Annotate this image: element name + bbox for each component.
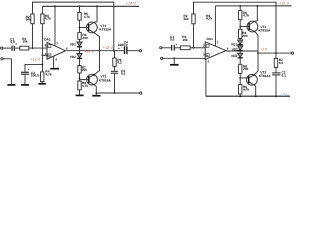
op-amp output wire <box>66 50 114 52</box>
node C2' rail <box>275 95 277 97</box>
wire R9 to C3 <box>114 66 116 70</box>
svg-text:4,7k: 4,7k <box>84 15 90 19</box>
resistor R4' 200 <box>239 29 242 38</box>
svg-text:+: + <box>48 54 50 58</box>
node R6' rail <box>239 95 241 97</box>
wire lower input to pin3 <box>163 57 205 59</box>
op-amp DA1 <box>47 42 66 59</box>
node pin7 on rail <box>54 5 56 7</box>
wire input to C1 <box>3 47 11 49</box>
svg-text:+: + <box>15 42 17 46</box>
resistor R7' 0.2 <box>274 58 277 67</box>
node feedback junction <box>113 50 115 52</box>
wire branch to C2 <box>25 64 42 71</box>
wire R8' to R6' <box>239 73 241 84</box>
wire R4' to VD1' <box>239 38 241 40</box>
capacitor C1 5.0 <box>11 46 14 51</box>
wire R8 to ground <box>79 90 81 95</box>
wire R2 bottom <box>32 24 34 48</box>
transistor VT1 KT815A <box>86 22 97 33</box>
lower input terminal <box>1 58 3 60</box>
wire C1' to R1' <box>175 47 180 49</box>
svg-text:VD2: VD2 <box>232 47 238 51</box>
svg-text:+12 V: +12 V <box>30 57 41 62</box>
ground input right <box>170 64 179 66</box>
svg-text:4,7k: 4,7k <box>243 14 249 18</box>
node VT1' base <box>239 26 241 28</box>
capacitor C3 0.1 <box>111 71 118 74</box>
resistor R8' 200 <box>239 64 242 73</box>
ground C2 <box>21 84 29 86</box>
resistor R5' 4.7k <box>239 11 242 20</box>
node VT2' collector rail <box>255 95 257 97</box>
wire R7' zobel <box>275 53 277 58</box>
svg-text:KT815A: KT815A <box>258 28 271 32</box>
svg-text:0,2: 0,2 <box>279 61 284 65</box>
svg-text:KT814A: KT814A <box>99 78 112 82</box>
node inverting input right <box>193 47 195 49</box>
svg-text:100,0: 100,0 <box>31 74 39 78</box>
svg-text:4,7k: 4,7k <box>45 72 51 76</box>
wire pin3 stub <box>42 54 47 56</box>
diode VD2' <box>238 46 243 50</box>
node VT1' collector rail <box>256 5 258 7</box>
svg-text:10k: 10k <box>22 40 28 44</box>
wire R2 top feedback to rail <box>33 2 114 51</box>
svg-text:KT814A: KT814A <box>259 74 272 78</box>
node ground tap <box>173 57 175 59</box>
svg-text:200: 200 <box>243 67 249 71</box>
node chain output junction <box>79 50 81 52</box>
transistor VT1' KT815A <box>247 21 258 32</box>
svg-text:+12 V: +12 V <box>103 45 114 50</box>
+12V rail right <box>215 5 291 7</box>
resistor R9 0.2 <box>113 58 116 66</box>
node R5 on rail <box>79 5 81 7</box>
node VT2' base <box>239 77 241 79</box>
svg-text:0,2: 0,2 <box>117 61 122 65</box>
svg-text:DA1: DA1 <box>207 37 214 41</box>
svg-text:+12 V: +12 V <box>279 1 290 6</box>
svg-text:VD1: VD1 <box>70 42 76 46</box>
node inverting input <box>32 47 34 49</box>
svg-text:+: + <box>118 46 120 50</box>
svg-text:4,7k: 4,7k <box>206 17 212 21</box>
node R5' on rail <box>239 5 241 7</box>
svg-text:+12 V: +12 V <box>84 49 95 54</box>
pin4 wire <box>53 56 55 68</box>
resistor R1 10k <box>20 46 29 50</box>
node bottom wire collector <box>95 92 97 94</box>
wire C3 to bottom <box>114 74 116 93</box>
svg-text:200: 200 <box>82 68 88 72</box>
wire R5 to R6 through VT1 base node <box>79 20 81 32</box>
node bias branch <box>42 64 44 66</box>
resistor R1' 10k <box>180 46 190 50</box>
wire R4 to ground <box>41 82 43 84</box>
resistor R6' 4.7k <box>239 84 242 94</box>
svg-text:VD3: VD3 <box>231 54 237 58</box>
transistor VT2' KT814A <box>247 74 258 85</box>
resistor R8 4.7k <box>78 81 81 90</box>
svg-text:VD2: VD2 <box>70 55 76 59</box>
node VT1 base <box>79 27 81 29</box>
input terminal right <box>160 47 162 49</box>
wire R2' bottom <box>193 24 195 48</box>
resistor R5 4.7k <box>78 12 81 20</box>
svg-text:200: 200 <box>82 36 88 40</box>
wire R7' to C2' <box>275 67 277 72</box>
resistor R7 200 <box>78 66 81 73</box>
svg-text:5,0: 5,0 <box>170 38 175 42</box>
ground R4 <box>38 83 46 85</box>
resistor R3 4.7k <box>41 14 44 24</box>
svg-text:VD1: VD1 <box>231 43 237 47</box>
resistor R2' 56k <box>192 14 195 24</box>
node zobel junction right <box>275 52 277 54</box>
wire R1' to pin2 <box>190 47 205 49</box>
node VT2 base <box>79 77 81 79</box>
wire C2 to ground <box>24 75 26 85</box>
svg-text:0,1: 0,1 <box>282 73 287 77</box>
svg-text:+24 V: +24 V <box>126 0 137 5</box>
inverting input box <box>48 45 51 48</box>
op-amp DA1' <box>205 42 226 60</box>
input terminal XS1 <box>1 47 3 49</box>
wire R6' to rail <box>239 94 241 96</box>
svg-text:56k: 56k <box>184 17 190 21</box>
capacitor C4 2200.0 plus wire <box>114 50 124 52</box>
ground input <box>7 84 15 86</box>
op-amp output wire right <box>226 50 258 52</box>
+24V rail <box>42 5 139 7</box>
wire R6 to VD1 <box>79 39 81 42</box>
wire C4 to output terminal <box>128 50 140 52</box>
resistor R6 200 <box>78 32 81 39</box>
capacitor C1' 5.0 <box>171 45 175 51</box>
svg-text:200: 200 <box>242 34 248 38</box>
wire R5' to R4' <box>239 20 241 30</box>
wire C2' to rail <box>275 75 277 96</box>
capacitor C2 100.0 <box>21 72 29 75</box>
non-inverting input box right <box>206 54 209 57</box>
svg-text:4,7k: 4,7k <box>243 88 249 92</box>
wire R3 bottom bias line <box>41 24 43 72</box>
wire bottom to terminal <box>96 92 139 94</box>
resistor R2 56k <box>31 14 34 24</box>
node pin3 tap <box>42 54 44 56</box>
svg-text:-: - <box>207 44 208 48</box>
svg-text:4,7k: 4,7k <box>45 17 51 21</box>
pin7 supply wire <box>54 6 56 46</box>
node emitters junction <box>99 50 101 52</box>
pin7' supply wire <box>214 6 216 46</box>
output terminal right <box>291 52 293 54</box>
diode VD3' <box>238 53 243 57</box>
wire VD2 to R7 <box>79 58 81 65</box>
diode VD1 <box>77 42 82 46</box>
wire R3 top <box>41 6 43 14</box>
wire VD1 to junction <box>79 47 81 54</box>
diode VD2 <box>77 54 82 58</box>
wire R9 zobel <box>114 51 116 58</box>
non-inverting input box <box>48 54 51 57</box>
svg-text:-: - <box>49 44 50 48</box>
wire R2' feedback rail <box>194 2 277 53</box>
wire emitter vertical jog <box>257 51 259 53</box>
wire input to C1' <box>162 47 171 49</box>
wire lower input to ground <box>3 59 11 85</box>
node chain junction right <box>239 50 241 52</box>
wire VD3' to R8' <box>239 58 241 65</box>
svg-text:10k: 10k <box>182 38 188 42</box>
svg-text:0 V: 0 V <box>262 46 268 51</box>
output terminal top <box>139 50 141 52</box>
svg-text:KT815A: KT815A <box>99 28 112 32</box>
wire ground tap <box>173 58 175 64</box>
svg-text:DA1: DA1 <box>44 38 51 42</box>
-12V rail <box>206 95 290 97</box>
svg-text:-12 V: -12 V <box>280 93 290 97</box>
transistor VT2 KT814A <box>87 74 98 85</box>
node C3 bottom <box>114 92 116 94</box>
wire R1 to op-amp pin2 <box>29 47 47 49</box>
svg-text:+: + <box>176 43 178 47</box>
node emitter wire junction <box>257 52 259 54</box>
node VT1 collector on rail <box>96 5 98 7</box>
svg-text:0,1: 0,1 <box>121 72 126 76</box>
wire R7 to R8 through VT2 base node <box>79 73 81 81</box>
resistor R4 4.7k <box>41 72 44 82</box>
wire output to terminal right <box>258 52 291 54</box>
capacitor C2' 0.1 <box>272 72 280 75</box>
ground VT2 collector <box>92 95 100 97</box>
wire R5 top <box>79 6 81 12</box>
wire R5' top <box>239 6 241 11</box>
wire C1 to R1 <box>15 47 20 49</box>
inverting input box right <box>206 44 209 47</box>
ground R8 <box>76 94 84 96</box>
ground pin4 <box>50 68 59 70</box>
svg-text:4,7k: 4,7k <box>82 84 88 88</box>
svg-text:+: + <box>28 68 30 72</box>
output terminal bottom <box>140 92 142 94</box>
lower input terminal right <box>161 57 163 59</box>
pin4' wire to negative rail <box>205 59 207 96</box>
svg-text:+: + <box>207 53 209 57</box>
diode VD1' <box>238 40 243 44</box>
svg-text:56k: 56k <box>26 18 32 22</box>
